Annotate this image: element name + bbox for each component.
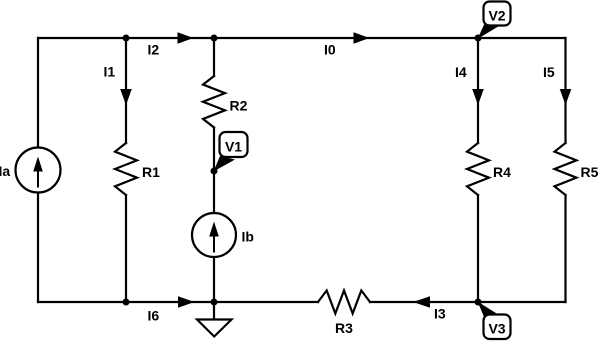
node dot top R1: [123, 35, 130, 42]
wire top rail: [38, 37, 566, 39]
svg-text:R5: R5: [581, 164, 599, 180]
svg-text:R4: R4: [493, 164, 511, 180]
wire R4 branch lower: [477, 195, 479, 302]
svg-text:I5: I5: [543, 64, 555, 80]
svg-text:R2: R2: [230, 98, 248, 114]
svg-text:R1: R1: [142, 164, 160, 180]
current arrow I6: [178, 296, 195, 308]
wire R2 branch upper: [213, 38, 215, 76]
svg-text:R3: R3: [335, 320, 353, 336]
resistor R4: [467, 143, 489, 195]
svg-text:I0: I0: [324, 42, 336, 58]
svg-text:V3: V3: [488, 321, 505, 337]
svg-text:I3: I3: [434, 306, 446, 322]
node label V2: [478, 2, 511, 40]
current arrow I4: [472, 89, 484, 105]
current arrow I1: [120, 89, 132, 105]
node dot V3: [475, 299, 482, 306]
svg-text:Ib: Ib: [242, 229, 254, 245]
wire right branch lower: [564, 195, 566, 302]
current source Ia circle: [16, 148, 61, 193]
svg-text:I4: I4: [455, 64, 467, 80]
node label V3: [478, 302, 511, 340]
svg-text:Ia: Ia: [0, 163, 10, 179]
wire R4 branch upper: [477, 38, 479, 143]
node dot V1: [211, 168, 218, 175]
current arrow I0: [354, 32, 370, 44]
wire node V1 to Ib: [213, 171, 215, 213]
node dot top R2: [211, 35, 218, 42]
current source Ib circle: [192, 213, 236, 257]
resistor R2: [203, 76, 225, 128]
wire bottom rail left of R3: [38, 301, 318, 303]
ground triangle: [197, 320, 232, 337]
resistor R5: [555, 143, 577, 195]
wire Ib to bottom rail: [213, 257, 215, 302]
current arrow I2: [178, 32, 194, 44]
resistor R1: [115, 143, 137, 195]
current arrow I3: [413, 296, 430, 308]
wire R1 branch upper: [125, 38, 127, 143]
node dot bottom R1: [123, 299, 130, 306]
node dot V2: [475, 35, 482, 42]
node dot ground: [211, 299, 218, 306]
node label V1: [214, 132, 248, 172]
ground stem: [213, 302, 215, 320]
wire left branch upper: [37, 38, 39, 148]
svg-text:I1: I1: [104, 64, 116, 80]
current source Ib arrow: [209, 222, 219, 253]
wire right branch upper: [564, 38, 566, 143]
wire left branch lower: [37, 193, 39, 303]
wire R1 branch lower: [125, 195, 127, 302]
svg-text:V1: V1: [225, 139, 242, 155]
wire R2 to node V1: [213, 128, 215, 172]
current source Ia arrow: [33, 157, 43, 188]
svg-text:I6: I6: [148, 308, 160, 324]
resistor R3: [318, 291, 370, 314]
svg-text:I2: I2: [148, 42, 160, 58]
current arrow I5: [560, 89, 572, 105]
svg-text:V2: V2: [488, 8, 505, 24]
wire bottom rail right of R3: [370, 301, 566, 303]
